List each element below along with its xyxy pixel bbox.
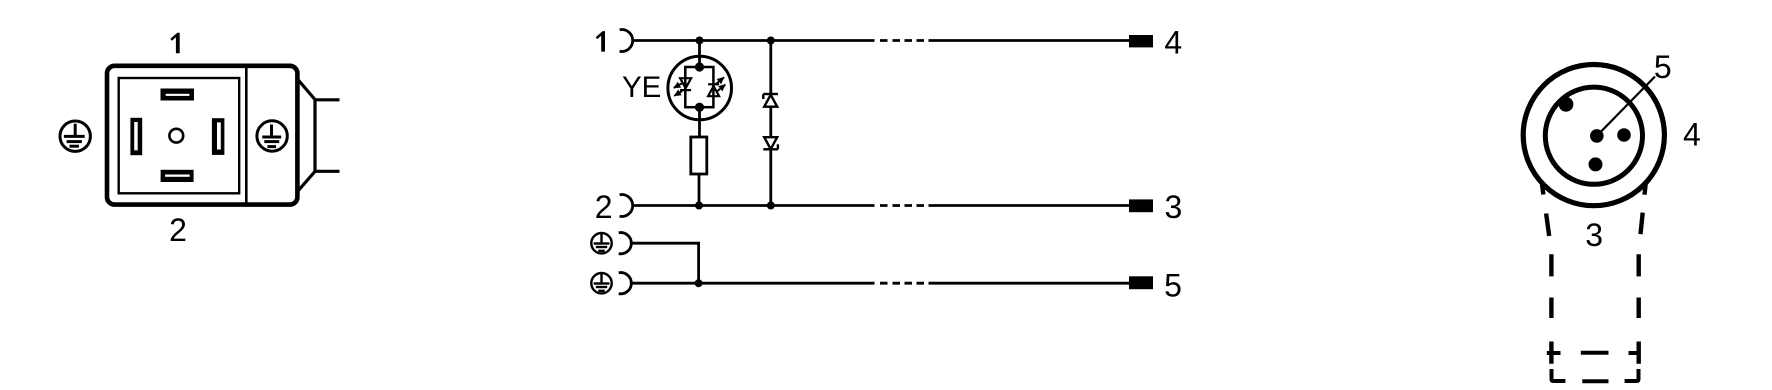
pin label 1 (DIN): [170, 33, 179, 54]
DIN cable wire stub top: [315, 98, 340, 101]
junction line1 / branch A: [696, 37, 704, 45]
LED loop rectangle: [685, 67, 713, 107]
wire line4 left: [632, 282, 875, 285]
ground symbol line 3: [591, 233, 611, 254]
M12 pin 3 bottom: [1589, 157, 1603, 171]
resistor R: [691, 137, 707, 174]
contact socket arc line 2: [620, 195, 633, 217]
contact socket arc line 1: [620, 30, 633, 52]
LED right arrows: [716, 77, 726, 91]
ground symbol in DIN right section: [257, 121, 287, 151]
pin slot right: [212, 118, 225, 155]
DIN cable wire stub bottom: [315, 170, 340, 173]
svg-text:5: 5: [1164, 267, 1182, 303]
M12 body dashed left: [1542, 185, 1551, 364]
svg-text:4: 4: [1164, 24, 1182, 60]
DIN connector face: [119, 78, 240, 193]
center hole: [169, 129, 183, 143]
terminal 4: [1129, 35, 1153, 47]
node 1 label: [596, 31, 605, 52]
M12 pin 5 center: [1590, 129, 1604, 143]
ground symbol line 4: [591, 273, 611, 294]
LED bottom node dot: [695, 103, 704, 112]
M12 nut dashed top edge: [1547, 351, 1641, 355]
wire line4 dashes: [880, 282, 924, 285]
M12 key notch: [1559, 97, 1574, 112]
pin 5 pointer line: [1597, 77, 1655, 136]
LED left arrows: [674, 84, 682, 96]
svg-text:3: 3: [1585, 217, 1603, 253]
pin slot left: [130, 118, 142, 155]
svg-text:3: 3: [1165, 189, 1183, 225]
contact socket arc line 4: [619, 273, 632, 294]
wire LED to resistor: [698, 107, 701, 137]
DIN connector body: [107, 66, 297, 205]
wire line4 right: [929, 282, 1130, 285]
wire line1 right: [929, 39, 1130, 42]
junction line2 / branch B: [767, 202, 775, 210]
svg-text:4: 4: [1683, 117, 1701, 153]
ground symbol left of DIN: [60, 121, 90, 151]
suppressor diode upper (zener, cathode up): [763, 94, 778, 107]
DIN connector divider: [245, 66, 248, 204]
wire line1 left: [633, 39, 875, 42]
wire ground 1 with corner to line4: [632, 243, 699, 283]
svg-text:2: 2: [595, 189, 613, 225]
LED left diode (down): [680, 78, 691, 90]
wire line2 dashes: [880, 204, 924, 207]
pin 2 slot bottom: [161, 170, 194, 182]
wire branch B lower: [769, 149, 772, 205]
wire between suppressor diodes: [769, 107, 772, 138]
terminal 3: [1129, 199, 1153, 212]
wire resistor to line2: [698, 174, 701, 206]
wire line2 right: [929, 204, 1130, 207]
suppressor diode lower (zener, cathode down): [763, 137, 778, 149]
wire branch B upper: [769, 41, 772, 95]
svg-text:2: 2: [169, 212, 187, 248]
svg-text:5: 5: [1654, 49, 1672, 85]
junction line1 / branch B: [767, 37, 775, 45]
svg-text:YE: YE: [622, 71, 661, 104]
M12 inner circle: [1545, 87, 1642, 184]
junction line2 / branch A: [695, 202, 703, 210]
pin 1 slot top: [161, 89, 195, 101]
DIN cable gland: [297, 79, 315, 192]
LED indicator circle: [668, 56, 732, 120]
wire line2 left: [633, 204, 875, 207]
LED top node dot: [695, 62, 704, 71]
contact socket arc line 3: [619, 233, 632, 254]
M12 nut dashed bottom outline: [1552, 369, 1639, 381]
wire line1 dashes: [880, 39, 924, 42]
M12 pin 4 right: [1617, 128, 1631, 142]
LED right diode (up): [708, 84, 719, 96]
M12 outer circle: [1523, 65, 1664, 206]
terminal 5: [1129, 276, 1153, 289]
M12 body dashed right: [1639, 185, 1646, 364]
wire branch A upper: [698, 41, 701, 68]
junction line4 / ground1: [695, 279, 703, 287]
